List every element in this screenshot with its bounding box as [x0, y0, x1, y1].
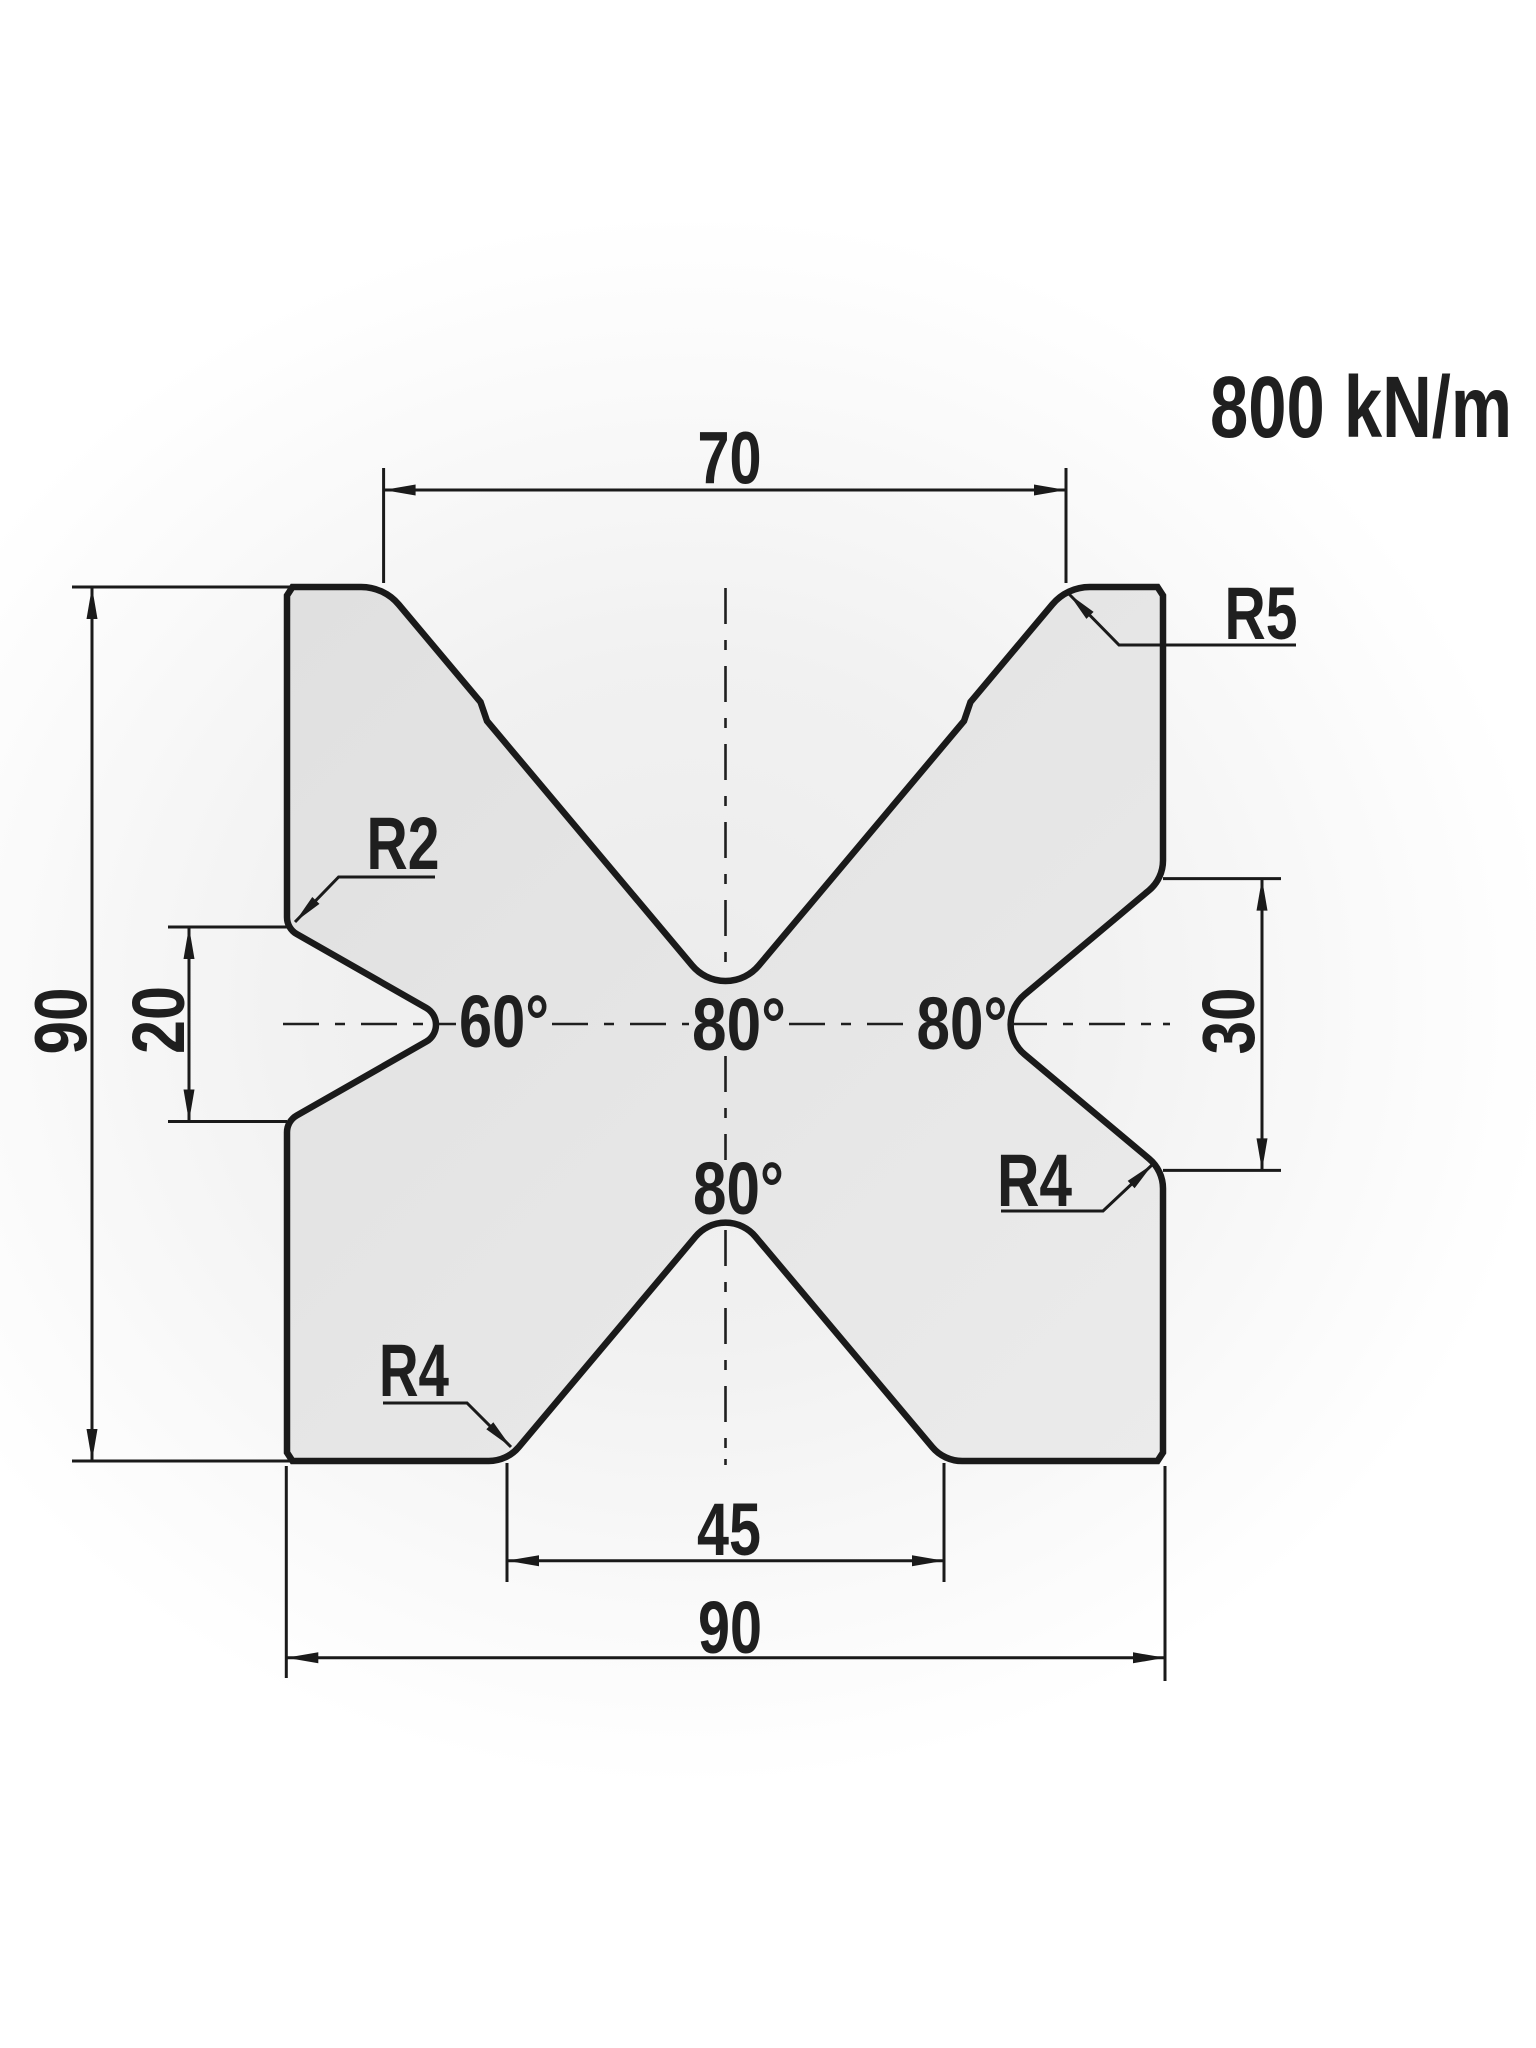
- dimension 70 (top V opening width): [384, 468, 1066, 583]
- svg-text:R4: R4: [997, 1139, 1072, 1222]
- vertical centerline (dash-dot): [724, 588, 727, 1465]
- svg-text:80°: 80°: [693, 1147, 784, 1230]
- svg-text:800 kN/m: 800 kN/m: [1210, 359, 1512, 456]
- svg-text:45: 45: [697, 1488, 761, 1571]
- dimension 30 (right V opening height): [1163, 879, 1281, 1171]
- leader R4 (right V lower entry radius): [1001, 1164, 1153, 1211]
- leader R4 (bottom V left entry radius): [383, 1403, 511, 1447]
- leader R5 (top V entry radius): [1069, 594, 1296, 645]
- svg-text:90: 90: [698, 1586, 762, 1669]
- svg-text:R2: R2: [367, 802, 440, 885]
- dimension 20 (left V opening height): [168, 927, 287, 1122]
- svg-text:20: 20: [117, 986, 200, 1054]
- svg-text:30: 30: [1187, 988, 1270, 1055]
- dimension 90 (die width, bottom): [286, 1466, 1165, 1681]
- svg-text:80°: 80°: [917, 982, 1008, 1065]
- svg-text:R4: R4: [379, 1329, 449, 1412]
- leader R2 (left V entry radius): [295, 877, 435, 922]
- dimension 90 (die height, left): [72, 587, 295, 1461]
- svg-text:60°: 60°: [459, 980, 549, 1063]
- svg-text:90: 90: [20, 988, 103, 1055]
- svg-text:R5: R5: [1225, 572, 1298, 655]
- svg-text:70: 70: [698, 417, 762, 500]
- dimension 45 (bottom V opening width): [507, 1463, 944, 1582]
- svg-text:80°: 80°: [692, 983, 786, 1066]
- die body: 4-way multi-V die cross-section (filled profile): [287, 587, 1163, 1461]
- horizontal centerline (dash-dot): [283, 1023, 1170, 1026]
